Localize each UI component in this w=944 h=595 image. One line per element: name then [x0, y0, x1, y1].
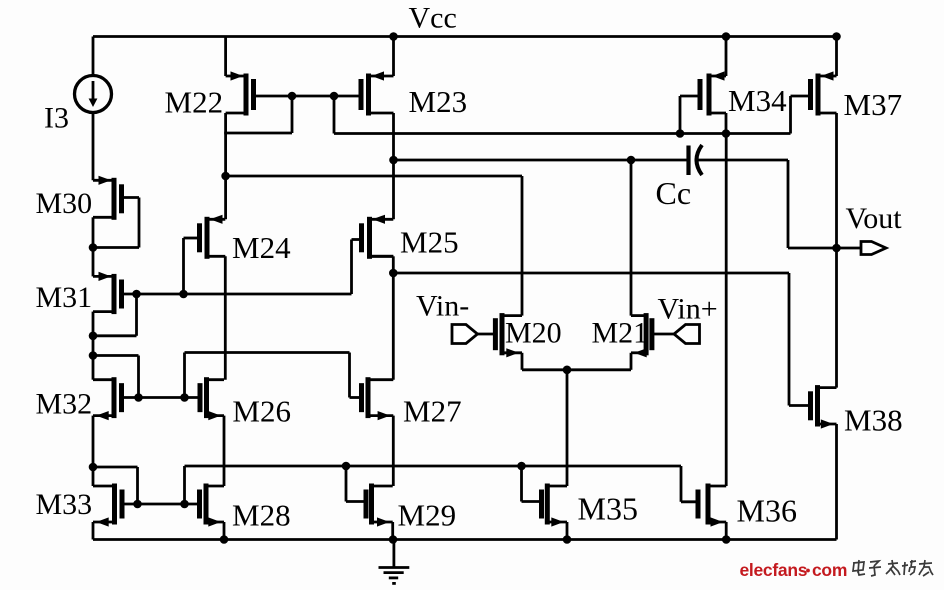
label M22 — [165, 85, 224, 120]
node node M21 drain tap — [627, 156, 636, 165]
node node gnd M36 — [722, 535, 731, 544]
label Vin- — [416, 290, 469, 323]
node node M31 drain — [89, 332, 98, 341]
wire tail current — [566, 370, 569, 486]
node node M32 gate — [134, 393, 143, 402]
watermark elecfans.com — [740, 560, 848, 580]
transistor M31 — [93, 272, 122, 314]
transistor M20 — [495, 313, 522, 357]
label M25 — [400, 225, 459, 260]
wire M23 source stub — [392, 37, 395, 77]
node node second stage — [389, 269, 398, 278]
wire M28 source stub — [223, 522, 226, 540]
label M36 — [737, 493, 797, 529]
node node gnd M29 — [389, 535, 398, 544]
wire M32-M26 gate line — [122, 396, 201, 399]
wire M22 source stub — [224, 37, 227, 77]
wire M34 source stub — [725, 37, 728, 77]
wire M37 drain chain — [835, 113, 838, 388]
node node M32 drain — [89, 351, 98, 360]
wire M29 source stub — [391, 522, 394, 540]
svg-text:M21: M21 — [592, 317, 649, 350]
transistor M27 — [362, 377, 394, 420]
node node M26 gate — [180, 393, 189, 402]
node node M34 gate — [676, 129, 685, 138]
label M38 — [844, 403, 903, 438]
label I3 — [44, 102, 69, 135]
wire M27 drain riser — [392, 273, 395, 380]
wire M34 gate lead — [680, 96, 700, 134]
label M26 — [232, 394, 291, 429]
node node M34 drain — [722, 129, 731, 138]
wire M25 drain lead — [370, 255, 394, 258]
svg-text:I3: I3 — [44, 102, 69, 135]
label M35 — [578, 491, 638, 527]
transistor M37 — [811, 71, 837, 115]
wire M25 gate lead — [352, 240, 362, 295]
svg-text:M24: M24 — [232, 230, 291, 265]
svg-text:M30: M30 — [36, 187, 93, 220]
node node M35 gate — [517, 462, 526, 471]
wire M37 source stub — [835, 37, 838, 77]
label Vout — [846, 202, 903, 235]
node node M29 gate — [342, 462, 351, 471]
wire Cc line — [394, 159, 689, 162]
wire M22-M23 gate line — [254, 95, 362, 98]
node node Vcc-M23 — [389, 32, 398, 41]
transistor M22 — [226, 71, 254, 115]
transistor M23 — [361, 71, 394, 115]
svg-text:com: com — [812, 560, 847, 580]
node node tail — [563, 366, 572, 375]
svg-text:M29: M29 — [398, 498, 457, 533]
transistor M36 — [698, 484, 726, 527]
wire NMOS gate rail — [185, 466, 682, 504]
svg-text:M20: M20 — [505, 317, 562, 350]
output terminal Vout — [861, 242, 886, 255]
node node M22 drain rail — [221, 172, 230, 181]
node node M28 gate — [180, 500, 189, 509]
wire M32 drain — [92, 356, 95, 380]
wire M22 drain chain — [224, 113, 227, 219]
label M21 — [592, 317, 649, 350]
label M28 — [232, 498, 291, 533]
svg-text:M35: M35 — [578, 491, 638, 527]
wire M29 gate riser — [346, 466, 366, 502]
node node Vcc-M34 — [722, 32, 731, 41]
transistor M35 — [542, 484, 568, 527]
wire M22 tie — [224, 96, 292, 133]
wire M27 source chain — [392, 416, 395, 486]
wire M21 drain riser — [630, 160, 633, 316]
transistor M24 — [200, 215, 226, 259]
wire M26-M27 gate tie — [185, 353, 362, 398]
node node Cc tap — [389, 156, 398, 165]
wire M32 source — [92, 416, 95, 467]
wire M31 tie — [93, 294, 137, 336]
label M34 — [728, 83, 787, 118]
wire M20 source — [522, 353, 567, 370]
svg-text:M22: M22 — [165, 85, 224, 120]
node node M30 drain — [89, 243, 98, 252]
label M32 — [36, 388, 93, 421]
node node gnd tail — [563, 535, 572, 544]
svg-text:M26: M26 — [232, 394, 291, 429]
wire M36 source stub — [725, 522, 728, 540]
wire M25 drain lead-out — [392, 256, 395, 273]
transistor M32 — [93, 377, 122, 420]
node node gnd M28 — [220, 535, 229, 544]
label M31 — [36, 281, 93, 314]
svg-text:M25: M25 — [400, 225, 459, 260]
transistor M30 — [93, 176, 122, 220]
label Vcc — [409, 2, 457, 35]
transistor M28 — [200, 484, 225, 527]
label M27 — [403, 394, 462, 429]
wire M23 tie riser — [333, 96, 336, 134]
wire M30 drain — [92, 217, 95, 247]
wire M38 gate line — [393, 273, 810, 406]
label M33 — [36, 488, 93, 521]
wire M33 drain — [92, 467, 95, 486]
svg-text:Cc: Cc — [656, 175, 692, 211]
svg-text:M36: M36 — [737, 493, 797, 529]
wire M30 gate loop — [93, 198, 139, 248]
wire M33-M28 gate line — [122, 503, 200, 506]
wire first-stage rail — [226, 176, 522, 316]
wire M24 gate lead — [184, 238, 200, 294]
svg-text:M23: M23 — [409, 84, 468, 119]
svg-text:M32: M32 — [36, 388, 93, 421]
node node M31 gate — [132, 290, 141, 299]
wire M31 source — [92, 248, 95, 277]
wire Vout lead — [837, 247, 863, 250]
svg-text:M28: M28 — [232, 498, 291, 533]
current source I3 — [75, 37, 112, 181]
wire M31 gate line — [122, 293, 352, 296]
node node Vout — [832, 244, 841, 253]
watermark chinese — [853, 560, 933, 576]
wire M31 drain — [92, 312, 95, 336]
transistor M25 — [362, 215, 394, 259]
svg-text:Vcc: Vcc — [409, 2, 457, 35]
transistor M29 — [366, 484, 393, 527]
transistor M21 — [631, 313, 652, 357]
label M30 — [36, 187, 93, 220]
wire M23 drain chain — [392, 113, 395, 219]
wire M35 gate riser — [522, 466, 542, 502]
node node M33 drain — [89, 463, 98, 472]
svg-text:M31: M31 — [36, 281, 93, 314]
wire M26 source chain — [223, 416, 226, 486]
input terminal Vin+ — [652, 325, 700, 344]
node M23 gate-drain tie — [330, 92, 339, 101]
wire ground rail — [93, 538, 837, 541]
wire M34 drain stub — [725, 113, 728, 134]
wire M38 source chain — [835, 424, 838, 540]
label M20 — [505, 317, 562, 350]
svg-text:Vout: Vout — [846, 202, 903, 235]
label M29 — [398, 498, 457, 533]
wire bias line B — [334, 132, 791, 135]
wire M24 drain chain — [224, 256, 227, 379]
wire M21 source — [567, 353, 631, 370]
wire M36 gate riser — [681, 466, 698, 502]
wire Cc right line — [695, 160, 837, 248]
svg-text:M34: M34 — [728, 83, 787, 118]
label M37 — [844, 87, 903, 122]
svg-text:Vin+: Vin+ — [658, 293, 718, 326]
wire M33 tie — [93, 467, 138, 504]
wire M33 source — [92, 522, 95, 540]
label M23 — [409, 84, 468, 119]
transistor M33 — [93, 484, 122, 527]
node node M24 gate — [179, 290, 188, 299]
node node Vcc-M37 — [832, 32, 841, 41]
ground — [379, 540, 410, 584]
transistor M34 — [700, 71, 726, 115]
wire left column seg — [92, 336, 95, 356]
transistor M26 — [200, 377, 224, 420]
svg-text:M27: M27 — [403, 394, 462, 429]
svg-text:M38: M38 — [844, 403, 903, 438]
svg-text:Vin-: Vin- — [416, 290, 469, 323]
capacitor Cc — [689, 145, 703, 175]
wire M37 gate riser — [791, 96, 811, 134]
svg-text:M33: M33 — [36, 488, 93, 521]
transistor M38 — [811, 385, 837, 429]
input terminal Vin- — [452, 325, 495, 344]
label M24 — [232, 230, 291, 265]
label Cc — [656, 175, 692, 211]
label Vin+ — [658, 293, 718, 326]
wire M36 drain riser — [725, 134, 728, 487]
wire M32 tie — [93, 356, 139, 398]
wire M35 source stub — [566, 522, 569, 540]
node M22 gate-drain tie — [288, 92, 297, 101]
svg-text:M37: M37 — [844, 87, 903, 122]
node node M33 gate — [133, 500, 142, 509]
wire Vcc rail — [93, 35, 837, 38]
svg-text:elecfans: elecfans — [740, 560, 808, 580]
